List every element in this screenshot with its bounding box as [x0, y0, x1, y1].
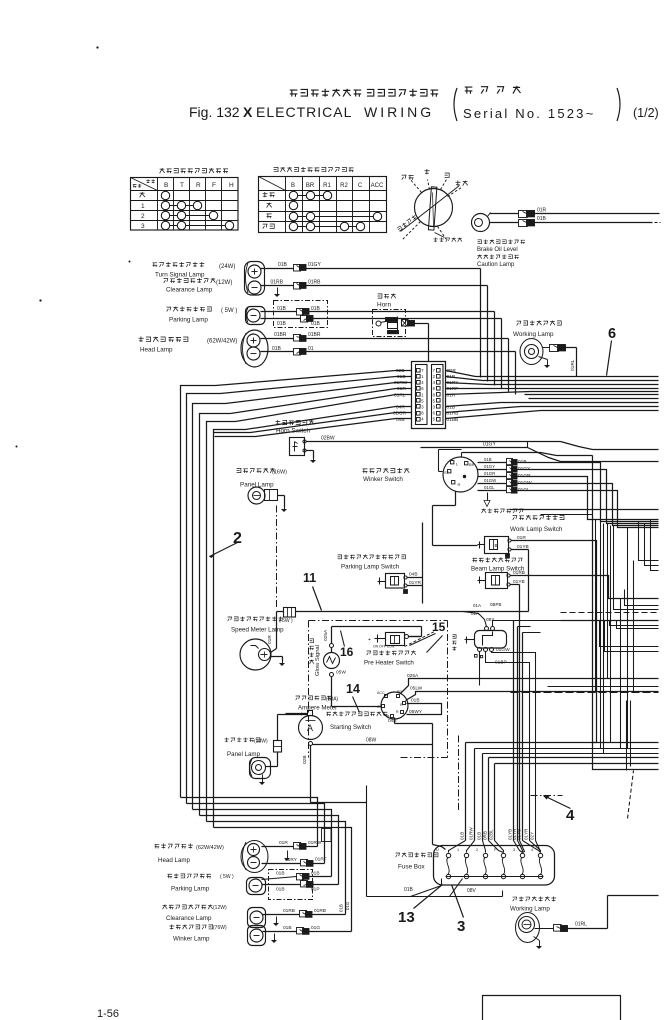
svg-text:R: R: [196, 182, 201, 189]
svg-text:01YR: 01YR: [524, 828, 529, 840]
svg-text:01B: 01B: [460, 832, 465, 840]
svg-text:ELECTRICAL: ELECTRICAL: [256, 104, 352, 120]
svg-text:01B: 01B: [484, 457, 492, 462]
svg-text:3: 3: [457, 918, 465, 935]
svg-text:(12W): (12W): [216, 280, 232, 286]
svg-text:5: 5: [433, 417, 436, 422]
svg-text:05LW: 05LW: [410, 686, 423, 692]
svg-text:X: X: [243, 104, 253, 120]
svg-text:01B: 01B: [311, 870, 320, 876]
svg-text:5: 5: [421, 398, 424, 403]
svg-text:(10W): (10W): [254, 739, 268, 745]
svg-text:04B: 04B: [396, 417, 405, 423]
svg-text:T: T: [180, 182, 184, 189]
svg-text:05WY: 05WY: [409, 709, 423, 715]
svg-text:01R: 01R: [447, 392, 456, 398]
svg-text:Winker Lamp: Winker Lamp: [173, 936, 210, 943]
svg-text:01GW: 01GW: [484, 478, 497, 483]
svg-text:R2: R2: [340, 183, 348, 189]
svg-text:01GL: 01GL: [484, 485, 495, 490]
svg-text:15: 15: [432, 620, 446, 634]
svg-text:4: 4: [531, 848, 533, 852]
svg-text:01: 01: [308, 346, 314, 352]
svg-text:01B: 01B: [404, 887, 414, 893]
svg-text:Horn Switch: Horn Switch: [276, 428, 310, 435]
svg-text:2: 2: [476, 848, 478, 852]
svg-text:04B: 04B: [388, 718, 397, 724]
svg-text:R: R: [396, 710, 399, 714]
svg-text:01RB: 01RB: [314, 908, 326, 914]
svg-text:Clearance Lamp: Clearance Lamp: [166, 287, 213, 294]
svg-text:01GR: 01GR: [484, 471, 495, 476]
svg-text:Serial No. 1523~: Serial No. 1523~: [463, 106, 595, 121]
svg-text:01GW: 01GW: [496, 647, 510, 653]
svg-text:01RB: 01RB: [308, 280, 321, 286]
svg-text:1: 1: [141, 203, 145, 210]
svg-text:WIRING: WIRING: [364, 104, 434, 120]
svg-text:1: 1: [457, 848, 459, 852]
svg-text:(16W): (16W): [272, 470, 287, 476]
svg-text:7: 7: [421, 368, 424, 373]
svg-text:01B: 01B: [477, 832, 482, 840]
svg-text:Horn: Horn: [377, 302, 391, 309]
svg-text:R: R: [458, 482, 461, 487]
svg-text:01RL: 01RL: [575, 922, 587, 928]
svg-text:01RW: 01RW: [308, 840, 322, 846]
svg-text:(62W/42W): (62W/42W): [207, 339, 237, 345]
svg-text:025A: 025A: [407, 673, 419, 679]
svg-text:Working Lamp: Working Lamp: [510, 906, 550, 913]
svg-text:8: 8: [421, 411, 424, 416]
svg-text:0BGR: 0BGR: [393, 411, 407, 417]
svg-text:ST: ST: [444, 470, 450, 475]
svg-text:01B: 01B: [276, 887, 285, 893]
svg-text:3: 3: [141, 223, 145, 230]
svg-text:01G: 01G: [311, 925, 320, 931]
svg-text:01GY: 01GY: [483, 441, 496, 447]
svg-text:Ampere Meter: Ampere Meter: [298, 705, 337, 712]
svg-text:BR: BR: [469, 462, 475, 467]
svg-text:01B: 01B: [277, 321, 287, 327]
svg-text:7: 7: [433, 368, 436, 373]
svg-text:01RF: 01RF: [315, 857, 327, 863]
svg-text:01BR: 01BR: [274, 332, 287, 338]
svg-text:Working Lamp: Working Lamp: [513, 331, 554, 338]
svg-text:3: 3: [433, 404, 436, 409]
svg-text:ACC: ACC: [377, 691, 385, 695]
svg-text:01YB: 01YB: [517, 829, 522, 840]
svg-text:0BY: 0BY: [486, 617, 495, 622]
svg-text:(62W/42W): (62W/42W): [196, 845, 224, 851]
svg-text:01RL: 01RL: [394, 392, 406, 398]
svg-text:6: 6: [608, 326, 616, 342]
svg-text:Clearance Lamp: Clearance Lamp: [166, 915, 212, 922]
svg-text:02B: 02B: [302, 755, 308, 764]
svg-text:02BL: 02BL: [489, 829, 494, 840]
svg-text:1: 1: [421, 374, 424, 379]
svg-text:B: B: [495, 543, 498, 548]
svg-text:A: A: [307, 723, 313, 733]
svg-text:02BW: 02BW: [321, 436, 335, 442]
svg-text:4: 4: [566, 807, 575, 824]
svg-text:01R: 01R: [267, 635, 273, 644]
svg-text:Winker Switch: Winker Switch: [363, 476, 403, 483]
svg-text:Glow Signal: Glow Signal: [315, 645, 321, 676]
svg-text:4: 4: [421, 417, 424, 422]
svg-text:ON OFF CON: ON OFF CON: [373, 645, 395, 649]
svg-text:Head Lamp: Head Lamp: [158, 857, 191, 864]
svg-text:Pre Heater Switch: Pre Heater Switch: [364, 660, 414, 667]
svg-text:Starting Switch: Starting Switch: [330, 724, 372, 731]
svg-text:01R: 01R: [279, 840, 288, 846]
svg-text:01RB: 01RB: [283, 908, 295, 914]
svg-text:C: C: [358, 183, 363, 189]
svg-text:01BP: 01BP: [495, 660, 507, 666]
svg-text:Parking Lamp: Parking Lamp: [169, 317, 208, 324]
svg-text:( 5W ): ( 5W ): [220, 874, 234, 880]
svg-text:6: 6: [433, 386, 436, 391]
svg-text:01B: 01B: [276, 870, 285, 876]
svg-text:01B: 01B: [277, 306, 287, 312]
svg-text:1-56: 1-56: [97, 1008, 119, 1020]
svg-text:01B: 01B: [272, 346, 282, 352]
svg-text:01RL: 01RL: [570, 359, 576, 371]
svg-text:R: R: [400, 703, 403, 707]
svg-text:2: 2: [141, 213, 145, 220]
svg-text:Fig. 132: Fig. 132: [189, 104, 240, 120]
svg-text:Head Lamp: Head Lamp: [140, 347, 173, 354]
svg-text:01B: 01B: [283, 925, 292, 931]
svg-text:01B: 01B: [278, 262, 288, 268]
svg-text:02Y: 02Y: [530, 832, 535, 840]
svg-text:2: 2: [433, 374, 436, 379]
svg-text:01A: 01A: [473, 603, 481, 608]
svg-text:8: 8: [433, 392, 436, 397]
svg-text:3: 3: [421, 404, 424, 409]
svg-text:ACC: ACC: [371, 183, 384, 189]
svg-text:01B: 01B: [339, 904, 344, 912]
svg-text:U: U: [436, 848, 439, 852]
svg-text:L: L: [456, 462, 459, 467]
svg-text:(1/2): (1/2): [633, 106, 659, 120]
svg-text:(76W): (76W): [213, 925, 227, 931]
svg-text:4: 4: [421, 380, 424, 385]
svg-text:01BR: 01BR: [308, 332, 321, 338]
svg-text:04R: 04R: [396, 404, 405, 410]
svg-text:4: 4: [433, 380, 436, 385]
svg-text:01P: 01P: [311, 887, 320, 893]
svg-text:B: B: [291, 183, 295, 189]
svg-text:025A: 025A: [323, 629, 329, 641]
svg-text:(30A): (30A): [326, 697, 339, 703]
svg-text:04B: 04B: [409, 572, 418, 578]
svg-text:01R: 01R: [537, 208, 547, 214]
svg-text:1: 1: [421, 392, 424, 397]
svg-text:BR: BR: [306, 183, 315, 189]
svg-text:R1: R1: [323, 183, 331, 189]
svg-text:6: 6: [421, 386, 424, 391]
svg-text:Fuse Box: Fuse Box: [398, 864, 425, 871]
svg-text:Parking Lamp Switch: Parking Lamp Switch: [341, 564, 400, 571]
svg-text:01G: 01G: [345, 901, 350, 910]
svg-text:01B: 01B: [311, 321, 321, 327]
svg-text:(24W): (24W): [219, 264, 235, 270]
svg-text:H: H: [229, 182, 234, 189]
svg-text:Work Lamp Switch: Work Lamp Switch: [510, 526, 563, 533]
svg-text:16: 16: [340, 645, 354, 659]
svg-text:C: C: [377, 705, 380, 709]
svg-text:05W: 05W: [336, 670, 346, 676]
svg-text:01RB: 01RB: [271, 280, 284, 286]
svg-text:14: 14: [346, 682, 360, 696]
svg-text:(12W): (12W): [213, 905, 227, 911]
svg-text:Brake Oil Level: Brake Oil Level: [477, 247, 518, 253]
svg-text:5: 5: [433, 398, 436, 403]
svg-text:01B: 01B: [311, 306, 321, 312]
svg-text:08V: 08V: [467, 888, 477, 894]
svg-text:01B: 01B: [411, 698, 420, 704]
svg-text:( 5W ): ( 5W ): [221, 308, 237, 314]
svg-text:3: 3: [513, 848, 515, 852]
svg-text:Parking Lamp: Parking Lamp: [171, 886, 210, 893]
svg-text:Turn Signal Lamp: Turn Signal Lamp: [155, 272, 205, 279]
svg-text:Caution Lamp: Caution Lamp: [477, 262, 515, 268]
svg-text:+: +: [368, 637, 371, 643]
svg-text:01GY: 01GY: [484, 464, 495, 469]
svg-text:08W: 08W: [366, 738, 377, 744]
svg-text:01GY: 01GY: [308, 262, 321, 268]
svg-text:01B: 01B: [447, 404, 456, 410]
svg-text:0RB: 0RB: [483, 831, 488, 840]
svg-text:11: 11: [303, 571, 316, 585]
svg-text:6: 6: [433, 411, 436, 416]
svg-text:0BPB: 0BPB: [490, 602, 502, 607]
svg-text:01B: 01B: [537, 216, 547, 222]
svg-text:F: F: [212, 182, 216, 189]
svg-text:( 5W ): ( 5W ): [279, 618, 293, 624]
svg-text:01RW: 01RW: [469, 827, 474, 840]
svg-text:B: B: [164, 182, 168, 189]
svg-text:13: 13: [398, 909, 415, 926]
